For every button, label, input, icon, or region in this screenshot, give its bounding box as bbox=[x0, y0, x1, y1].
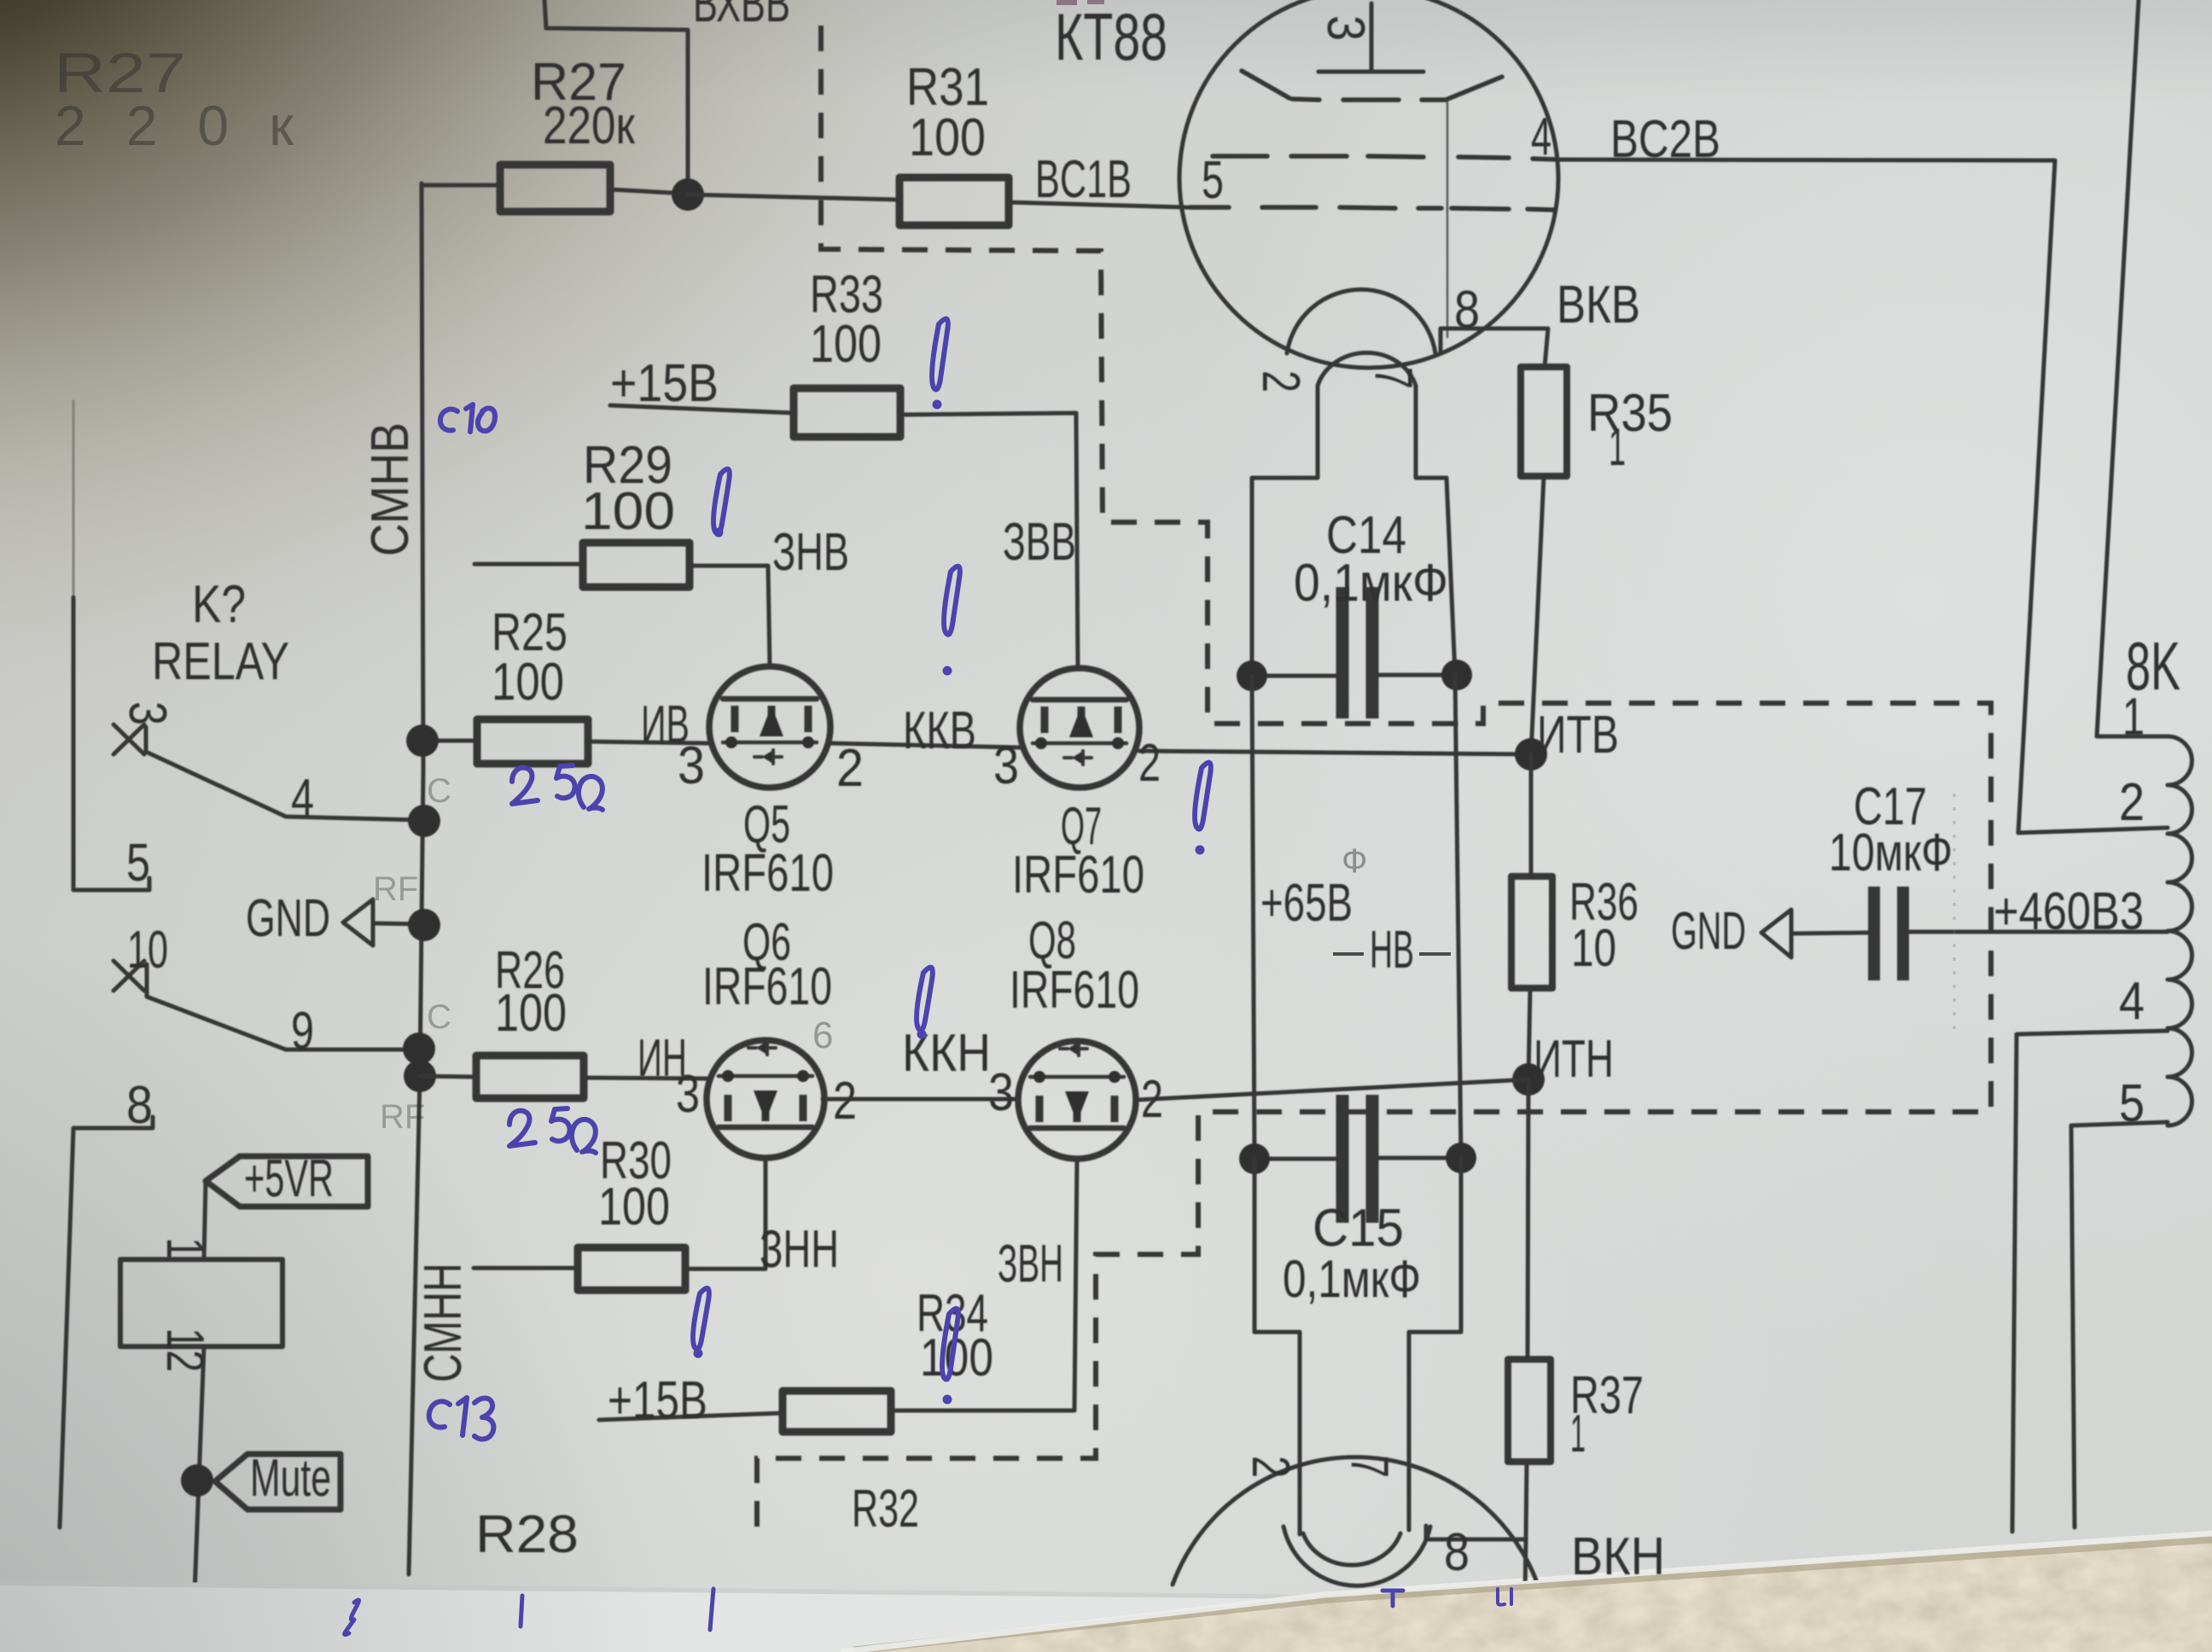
tube anode plate bbox=[1318, 70, 1423, 74]
handwriting 25 Omega 1 bbox=[512, 768, 538, 804]
exclamation near Q7 pin2 bbox=[1195, 763, 1211, 829]
resistor R29 lead bbox=[474, 562, 583, 567]
tube cathode to pin 8 bbox=[1441, 329, 1548, 367]
exclamation below R30 bbox=[693, 1288, 709, 1350]
transformer tap 1 bbox=[2097, 0, 2168, 736]
wire R33 to ZVV corner, gate Q7 bbox=[900, 413, 1078, 667]
tube grid g2 dashes bbox=[1213, 156, 1559, 160]
dashed BXBB feedback path bbox=[757, 26, 1991, 1539]
capacitor C14 plates bbox=[1342, 587, 1372, 718]
wire +15V top bbox=[610, 405, 794, 413]
resistor R27 bbox=[500, 165, 610, 212]
wire R25 to Q5 bbox=[588, 742, 709, 743]
resistor R25 bbox=[477, 719, 588, 764]
transistor Q6 IRF610 (mirrored) bbox=[707, 1040, 824, 1158]
faint dotted artifact line bbox=[1953, 794, 1956, 1032]
node contact9 on bus bbox=[403, 1032, 435, 1065]
transformer tap 2 bbox=[2018, 828, 2168, 833]
transformer tap 5 bbox=[2071, 1122, 2168, 1527]
bottom tube cathode arc bbox=[1284, 1527, 1430, 1585]
exclamation near R34 ZVN bbox=[942, 1309, 958, 1380]
relay pin 8 wire bbox=[60, 1117, 153, 1527]
wire ITN to R37 bbox=[1528, 1079, 1528, 1359]
tube anode pin 3 lead bbox=[1370, 3, 1374, 72]
wire R26 to Q6 bbox=[584, 1078, 707, 1079]
dark specks top edge bbox=[1057, 0, 1104, 5]
node dot IV row on bus bbox=[406, 724, 439, 757]
resistor R34 bbox=[783, 1391, 891, 1432]
carpet bottom-right bbox=[841, 1533, 2212, 1652]
wire left bus CMHB/CMHH vertical bbox=[409, 183, 423, 1574]
transistor Q7 IRF610 bbox=[1020, 668, 1139, 788]
exclamation near R33 bbox=[932, 319, 948, 390]
node Mute bbox=[181, 1464, 213, 1497]
wire Q7 to ITB node bbox=[1139, 751, 1531, 754]
wire R37 to VKN corner bbox=[1431, 1462, 1527, 1539]
ground symbol right bbox=[1761, 910, 1791, 957]
label HB dashes bbox=[1333, 952, 1451, 956]
resistor R37 bbox=[1508, 1359, 1551, 1462]
bottom tube pin 8 stub bbox=[1426, 1526, 1526, 1539]
wire coil pin12 down bbox=[195, 1347, 204, 1594]
blue marks bottom edge bbox=[345, 1600, 359, 1635]
handwriting C10 bbox=[440, 410, 457, 431]
wire Q5 to Q7 (KKV) bbox=[830, 743, 1020, 747]
bottom tube envelope arc bbox=[1173, 1457, 1538, 1585]
wire BXBB input drop to node bbox=[544, 0, 688, 195]
wire R36 to ITN node bbox=[1528, 988, 1530, 1079]
transformer tap +460V bbox=[1910, 930, 2168, 934]
resistor R26 bbox=[476, 1056, 584, 1098]
relay contact 10 arm bbox=[147, 964, 419, 1050]
node GND on bus bbox=[408, 909, 440, 941]
wire R34 to ZVN corner, gate Q8 bbox=[891, 1159, 1077, 1411]
node junction at R27/R31 bbox=[672, 178, 704, 211]
tube KT88 envelope bbox=[1179, 0, 1558, 368]
capacitor C15 plates bbox=[1342, 1095, 1372, 1223]
tube heater arc bbox=[1318, 352, 1416, 386]
wire Q6 to Q8 (KKN) bbox=[823, 1097, 1019, 1102]
wire bus corner to R27 bbox=[422, 183, 500, 188]
transformer tap 4 bbox=[2012, 1031, 2168, 1532]
ground symbol left bbox=[343, 899, 373, 945]
resistor R29 bbox=[583, 543, 690, 587]
bottom tube heater arc bbox=[1303, 1533, 1400, 1565]
resistor R33 bbox=[794, 388, 900, 437]
wire ITB to R36 bbox=[1529, 754, 1534, 876]
resistor R26 lead bbox=[420, 1076, 476, 1077]
exclamation above KKV bbox=[944, 567, 960, 635]
wire Q8 to ITN node bbox=[1136, 1079, 1528, 1100]
node ITN bbox=[1512, 1063, 1545, 1096]
wire BC2B from pin4 to transformer bbox=[1559, 160, 2055, 833]
capacitor C14 leads bbox=[1252, 674, 1336, 678]
tube heater pins 2,7 drop bbox=[1252, 386, 1318, 676]
resistor R31 bbox=[899, 177, 1009, 225]
relay contact 3 arm bbox=[146, 727, 420, 820]
resistor R36 bbox=[1511, 876, 1552, 988]
wire gate Q6 to ZNN corner bbox=[685, 1158, 765, 1269]
wire R31 to tube pin 5 (BC1B) bbox=[1009, 202, 1188, 207]
relay pin 5 wire bbox=[73, 401, 75, 597]
transistor Q8 IRF610 (mirrored) bbox=[1018, 1041, 1136, 1159]
exclamation above KKN bbox=[917, 968, 933, 1031]
capacitor C17 plates bbox=[1874, 887, 1903, 980]
tube grid g3 dashes bbox=[1190, 207, 1555, 210]
relay contact 3 cross bbox=[114, 724, 144, 754]
wire rails between C14 and C15 bbox=[1252, 676, 1254, 1158]
relay coil K? bbox=[120, 1259, 282, 1347]
wire R29 to ZNV corner, gate Q5 bbox=[690, 566, 770, 666]
handwriting 25 Omega 2 bbox=[509, 1111, 535, 1146]
wire rails below C15 to bottom tube bbox=[1254, 1159, 1300, 1534]
flag +5VR bbox=[206, 1156, 368, 1207]
wire +15V bottom bbox=[599, 1413, 783, 1420]
transistor Q5 IRF610 bbox=[709, 666, 830, 788]
tube grid g1 dashes bbox=[1242, 71, 1502, 100]
node contact4 on bus bbox=[408, 805, 440, 837]
capacitor C15 leads bbox=[1254, 1157, 1336, 1161]
wire R27 to node bbox=[610, 189, 688, 194]
relay contact 10 cross bbox=[114, 961, 144, 991]
resistor R25 lead bbox=[422, 739, 477, 743]
flag Mute bbox=[215, 1454, 341, 1509]
tube internal beam line bbox=[1447, 102, 1449, 337]
faint ghost marks near bus bbox=[373, 772, 451, 1136]
wire node to R31 bbox=[688, 195, 899, 200]
transformer 8K winding bbox=[2168, 736, 2192, 1126]
tube cathode arc bbox=[1287, 289, 1435, 353]
resistor R35 bbox=[1521, 367, 1567, 476]
resistor R30 bbox=[578, 1248, 685, 1290]
node dots C15 bbox=[1239, 1143, 1270, 1174]
wire R35 to ITB node bbox=[1531, 476, 1544, 754]
faint ghost text R27 220k in dark corner bbox=[54, 41, 294, 157]
handwriting C13 bbox=[429, 1401, 450, 1427]
exclamation near R29 bbox=[713, 469, 730, 534]
node ITB bbox=[1515, 738, 1547, 771]
wire R30 left lead bbox=[474, 1266, 578, 1271]
second sheet below fold, bottom-left bbox=[0, 1580, 1324, 1652]
node dots C14 bbox=[1237, 660, 1267, 691]
